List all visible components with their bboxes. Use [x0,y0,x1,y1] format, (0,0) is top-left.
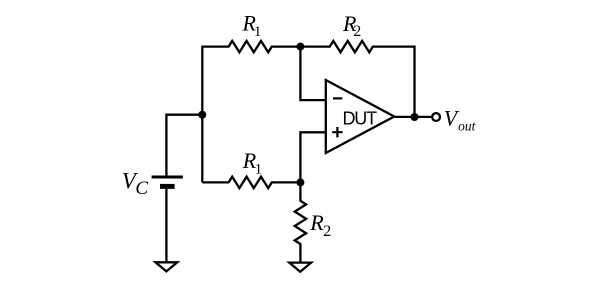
svg-text:1: 1 [255,161,263,177]
svg-text:2: 2 [353,23,361,40]
svg-text:out: out [458,118,477,133]
svg-text:R: R [309,210,324,235]
svg-text:1: 1 [254,24,262,40]
svg-text:C: C [135,178,148,199]
svg-text:DUT: DUT [343,108,378,128]
svg-text:2: 2 [323,223,331,240]
